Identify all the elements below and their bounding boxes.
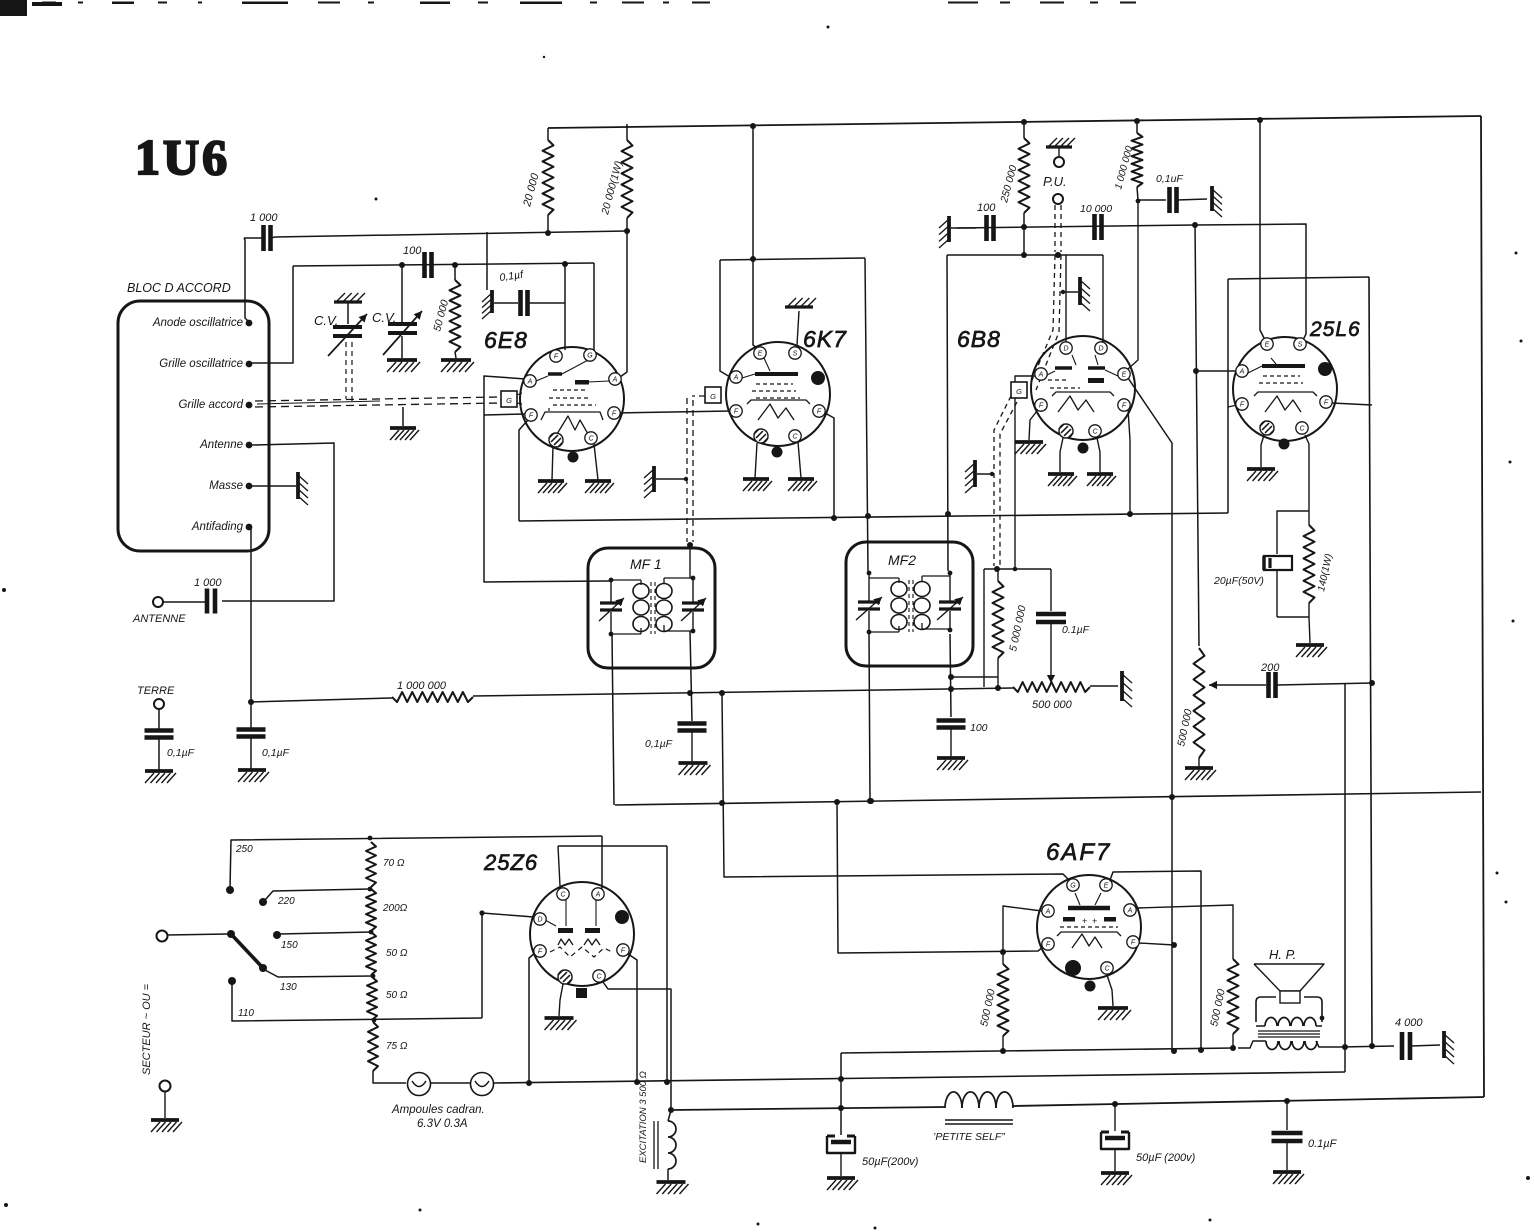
- wire - pot right to chassis: [1090, 685, 1118, 687]
- svg-text:100: 100: [977, 202, 996, 214]
- tube 6B8 (detector/AVC): [1011, 336, 1135, 454]
- svg-text:G: G: [506, 396, 512, 405]
- resistor 75 ohm: [368, 1022, 408, 1071]
- svg-text:0,1µF: 0,1µF: [262, 747, 290, 759]
- svg-text:0,1uF: 0,1uF: [1156, 173, 1183, 185]
- svg-text:A: A: [1038, 371, 1044, 378]
- resistor 20000(1W): [599, 124, 632, 231]
- resistor 1 000 000 (diode load): [1113, 121, 1142, 200]
- svg-text:Grille oscillatrice: Grille oscillatrice: [159, 358, 243, 370]
- svg-text:5 000 000: 5 000 000: [1007, 604, 1028, 652]
- wire - heater rail y520: [519, 511, 1228, 521]
- svg-text:E: E: [758, 350, 763, 357]
- wire - 6K7 box top: [720, 256, 865, 262]
- svg-text:6.3V 0.3A: 6.3V 0.3A: [417, 1118, 468, 1130]
- capacitor 4 000: [1395, 1017, 1440, 1060]
- svg-text:130: 130: [280, 982, 297, 993]
- wire - antifading down: [248, 529, 254, 705]
- svg-text:100: 100: [403, 245, 422, 257]
- wire - 6B8 D-left lead: [1065, 255, 1067, 342]
- pilot lamp 2: [471, 1073, 494, 1096]
- svg-text:G: G: [587, 352, 593, 359]
- capacitor 0,1uF (MF1): [645, 724, 707, 763]
- switch contact 130: [265, 970, 375, 993]
- svg-text:F: F: [529, 412, 534, 419]
- svg-text:A: A: [733, 374, 739, 381]
- wire - x529 to 25Z6 F-left: [529, 953, 535, 1083]
- svg-text:Grille accord: Grille accord: [178, 399, 243, 411]
- label 6B8: [957, 326, 1001, 352]
- svg-text:F: F: [612, 410, 617, 417]
- svg-text:Masse: Masse: [209, 480, 243, 492]
- terminal - P.U. upper: [1046, 138, 1075, 167]
- capacitor 100 (MF2): [937, 721, 988, 758]
- ground - excitation: [657, 1182, 689, 1194]
- chassis bar - 4000 cap: [1444, 1031, 1454, 1064]
- ground - 50uF no2: [1101, 1173, 1132, 1185]
- resistor 500 000 (6AF7 left): [978, 964, 1008, 1054]
- svg-text:S: S: [793, 350, 798, 357]
- capacitor 20uF(50V) electrolytic: [1213, 556, 1292, 617]
- capacitor 0,1uF (terre): [145, 709, 195, 770]
- wire - grille oscillatrice riser: [250, 266, 293, 363]
- wire - 6E8 cathode legs: [552, 444, 598, 480]
- capacitor 1000 top-left: [244, 212, 278, 251]
- svg-text:D: D: [1098, 345, 1103, 352]
- wire - x1228 down: [1228, 279, 1237, 513]
- capacitor 100 (osc grid): [403, 245, 432, 278]
- resistor 1 000 000 (horizontal): [392, 680, 473, 702]
- ground - 25L6: [1247, 469, 1278, 481]
- wire - 6AF7 A-left to 500k: [1003, 906, 1042, 964]
- resistor 200 ohm: [366, 889, 408, 931]
- svg-text:6AF7: 6AF7: [1046, 839, 1111, 866]
- resistor 70 ohm: [366, 842, 405, 887]
- svg-text:P.U.: P.U.: [1043, 174, 1067, 189]
- wire - 6B8 F-right to heater rail: [1128, 409, 1130, 514]
- switch lever: [227, 930, 267, 972]
- wire - MF1 top feed: [687, 542, 693, 578]
- svg-text:200Ω: 200Ω: [382, 903, 408, 914]
- wire - x841 filter riser: [840, 1053, 842, 1135]
- svg-text:F: F: [1046, 941, 1051, 948]
- wire - 6B8 E riser: [1128, 200, 1138, 369]
- wire - 25Z6 inner rail: [558, 846, 667, 1082]
- svg-text:MF 1: MF 1: [630, 556, 662, 572]
- wire - right border vertical: [1481, 116, 1484, 1097]
- label 6K7: [803, 326, 847, 352]
- tube 25L6 (output): [1233, 337, 1337, 450]
- wire - 25L6 hatch pin leg: [1261, 435, 1264, 467]
- wire - 6K7 box left to A: [720, 260, 730, 377]
- svg-text:25Z6: 25Z6: [483, 850, 538, 875]
- svg-text:A: A: [595, 891, 601, 898]
- wire - 6E8 box corner to heater rail: [519, 420, 528, 521]
- wire - MF2 left leg down: [867, 634, 873, 804]
- ground - tuning line rotor T: [390, 407, 419, 440]
- switch contact 220: [259, 887, 372, 907]
- svg-text:100: 100: [970, 722, 988, 734]
- svg-text:220: 220: [277, 896, 295, 907]
- ground - under 50000: [441, 360, 474, 372]
- svg-text:F: F: [1131, 939, 1136, 946]
- wire - 25L6 F-right lead: [1332, 403, 1372, 405]
- terminal - TERRE: [137, 685, 175, 709]
- svg-text:1 000 000: 1 000 000: [1113, 145, 1135, 191]
- terminal - secteur: [157, 931, 168, 942]
- svg-text:0,1µF: 0,1µF: [645, 738, 673, 750]
- svg-text:E: E: [1265, 341, 1270, 348]
- svg-text:F: F: [1240, 401, 1245, 408]
- wire - 5M bottom stub: [951, 677, 998, 688]
- wire - top B+ rail: [548, 116, 1481, 129]
- resistor 20000 (R osc anode): [521, 128, 553, 233]
- svg-text:500 000: 500 000: [978, 988, 998, 1028]
- capacitor 100 (6B8 grid): [977, 202, 996, 241]
- wire - lamps link: [430, 1082, 471, 1084]
- wire - 25L6 screen rail right: [1228, 277, 1369, 279]
- svg-text:250 000: 250 000: [998, 164, 1020, 205]
- chassis bar - detector shield tap: [965, 460, 994, 493]
- svg-text:Antifading: Antifading: [191, 521, 244, 533]
- svg-text:E: E: [1104, 882, 1109, 889]
- chassis bar - pot right: [1122, 671, 1132, 707]
- svg-text:A: A: [1045, 908, 1051, 915]
- svg-text:75 Ω: 75 Ω: [386, 1041, 408, 1052]
- capacitor 50uF(200v) no2: [1101, 1104, 1196, 1171]
- wire - oscillator grid rail y265: [293, 261, 594, 268]
- ground - 500k AVC: [1185, 768, 1216, 780]
- wire - MF1 right leg down: [690, 631, 692, 721]
- pilot lamp 1: [408, 1073, 431, 1096]
- dashed wire - 6B8 grid to detector: [994, 396, 1017, 566]
- capacitor 0.1uF (detector): [1036, 569, 1090, 683]
- wire - chain bottom to lamps: [373, 1071, 406, 1083]
- resistor 500 000 (AVC): [1175, 648, 1204, 767]
- svg-text:F: F: [1039, 402, 1044, 409]
- svg-text:25L6: 25L6: [1309, 318, 1361, 341]
- svg-text:+: +: [1092, 916, 1097, 926]
- svg-text:6K7: 6K7: [803, 326, 847, 352]
- ground - MF1 cap: [679, 763, 711, 775]
- svg-text:S: S: [1298, 341, 1303, 348]
- wire - screen rail to 25L6 S: [1195, 224, 1306, 340]
- svg-text:1 000: 1 000: [250, 212, 278, 224]
- terminal - P.U. lower: [1053, 194, 1063, 204]
- ground - antifading: [238, 770, 269, 782]
- svg-text:A: A: [1127, 907, 1133, 914]
- dashed wire - 6K7 grid to MF1: [687, 396, 705, 542]
- svg-text:50µF(200v): 50µF(200v): [862, 1156, 919, 1168]
- switch contact 110: [228, 977, 482, 1022]
- svg-text:F: F: [734, 408, 739, 415]
- svg-text:TERRE: TERRE: [137, 685, 175, 697]
- svg-text:MF2: MF2: [888, 552, 916, 568]
- svg-text:F: F: [1122, 402, 1127, 409]
- svg-text:10 000: 10 000: [1080, 203, 1112, 215]
- capacitor 10 000: [1080, 203, 1112, 240]
- wire - AVC rail left: [251, 698, 392, 702]
- wire - 25Z6 plate rail: [599, 836, 602, 890]
- svg-text:70 Ω: 70 Ω: [383, 858, 405, 869]
- capacitor 0.1uF (bottom right): [1272, 1101, 1338, 1170]
- wire - 6E8 F to 6K7 F heater link: [614, 411, 731, 413]
- svg-text:A: A: [612, 376, 618, 383]
- svg-text:0,1µF: 0,1µF: [167, 747, 195, 759]
- terminal - secteur bottom: [160, 1081, 171, 1119]
- dashed link CV1 rotor: [346, 342, 352, 405]
- ground - 50uF no1: [827, 1178, 858, 1190]
- label 25L6: [1309, 318, 1361, 341]
- wire - detector top rail: [984, 566, 1051, 572]
- ground - terre: [145, 771, 176, 783]
- wire - masse to chassis: [252, 485, 296, 487]
- resistor 50 ohm (1): [366, 932, 408, 975]
- ground - above 6K7 (screen): [785, 298, 816, 307]
- wire - anode oscillatrice riser: [244, 238, 249, 322]
- ground - 25L6 bias: [1296, 645, 1327, 657]
- svg-text:1 000 000: 1 000 000: [397, 680, 447, 692]
- svg-text:A: A: [1239, 368, 1245, 375]
- svg-text:Antenne: Antenne: [199, 439, 243, 451]
- label 6AF7: [1046, 839, 1111, 866]
- wire - 25L6 A lead: [1193, 368, 1236, 374]
- label SECTEUR: [141, 983, 153, 1075]
- svg-text:BLOC D ACCORD: BLOC D ACCORD: [127, 281, 231, 295]
- terminal - ANTENNE: [132, 597, 186, 625]
- loudspeaker H.P. with output transformer: [1238, 947, 1340, 1050]
- bloc d accord box: [118, 281, 269, 551]
- svg-text:6E8: 6E8: [484, 327, 528, 353]
- variable capacitor C.V. 2: [372, 266, 422, 358]
- label 25Z6: [483, 850, 538, 875]
- svg-text:E: E: [1122, 371, 1127, 378]
- wire - bottom border rail: [671, 1097, 1484, 1111]
- wire - 6AF7 G rail: [722, 694, 1069, 880]
- svg-text:0.1µF: 0.1µF: [1308, 1138, 1338, 1150]
- ground - MF2 cap: [937, 758, 968, 770]
- svg-text:EXCITATION 3 500 Ω: EXCITATION 3 500 Ω: [638, 1071, 649, 1163]
- dashed wire - P.U. pickup pair: [1030, 205, 1061, 390]
- svg-text:50 Ω: 50 Ω: [386, 948, 408, 959]
- bloc d accord terminals and labels: [152, 317, 253, 533]
- wire - 6AF7 A-right to 500k: [1136, 905, 1233, 959]
- svg-text:110: 110: [238, 1008, 254, 1019]
- wire - 6E8 A-left bracket to MF1: [484, 376, 609, 582]
- inductor petite self: [933, 1092, 1013, 1143]
- wire - 6B8 F-left to ground: [1029, 411, 1037, 440]
- wire - 6B8 E to B+ drop: [1128, 378, 1177, 1054]
- wiper arrow - onto 500k: [1209, 681, 1240, 689]
- capacitor 1000 (antenne): [163, 577, 222, 614]
- wire - speaker secondary to 4000 cap: [1340, 1044, 1394, 1050]
- svg-text:500 000: 500 000: [1175, 708, 1195, 748]
- wire - x487 from 1000 cap to chassis bar: [486, 232, 488, 290]
- ground - 6AF7: [1098, 1008, 1131, 1020]
- resistor 250 000: [998, 122, 1029, 255]
- ground - under CV2: [387, 360, 420, 372]
- wire - 6K7 cathode legs: [755, 442, 801, 478]
- wire - 6AF7 E rail: [1110, 871, 1201, 1050]
- wire - secteur to pivot: [167, 934, 228, 935]
- svg-text:500 000: 500 000: [1208, 988, 1228, 1028]
- wire - antenne to 1000 cap: [222, 443, 334, 601]
- ground - 6K7 left: [743, 479, 772, 491]
- label 6E8: [484, 327, 528, 353]
- tube 6K7 (IF amplifier): [705, 342, 830, 458]
- wire - 6B8 box top: [947, 252, 1103, 258]
- svg-text:20 000(1W): 20 000(1W): [599, 160, 625, 217]
- field coil EXCITATION 3500: [638, 1071, 676, 1180]
- chassis bar - shield tap 6E8/6K7: [644, 466, 688, 498]
- potentiometer 500 000 (volume): [1013, 682, 1090, 711]
- wire - heater chain rail: [494, 1072, 1345, 1086]
- svg-text:0.1µF: 0.1µF: [1062, 624, 1090, 636]
- capacitor 200: [1240, 662, 1372, 698]
- chassis bar - masse: [298, 472, 308, 505]
- schematic title 1U6: [135, 129, 230, 185]
- wire - MF2 right leg down: [948, 634, 954, 717]
- svg-text:20 000: 20 000: [521, 171, 542, 208]
- svg-text:250: 250: [235, 844, 253, 855]
- wire - MF1 left leg down: [612, 634, 614, 805]
- svg-text:F: F: [554, 353, 559, 360]
- ground - secteur: [151, 1120, 182, 1132]
- svg-text:1U6: 1U6: [135, 129, 230, 185]
- capacitor 0,1uf (osc): [482, 269, 565, 319]
- ground - 6B8 mid: [1048, 474, 1077, 486]
- svg-text:50 Ω: 50 Ω: [386, 990, 408, 1001]
- label P.U.: [1043, 174, 1067, 189]
- ground - 6B8 right: [1087, 474, 1116, 486]
- svg-text:F: F: [817, 408, 822, 415]
- svg-text:50µF (200v): 50µF (200v): [1136, 1152, 1196, 1164]
- wire - 6K7 E riser: [753, 126, 757, 348]
- wire - 6K7 S to ground: [797, 311, 799, 345]
- ground - 6B8 F-left: [1015, 442, 1046, 454]
- ground - 25Z6: [545, 1018, 577, 1030]
- tube 6E8 (converter): [501, 347, 624, 463]
- wire - x1372 B+ drop: [1369, 277, 1375, 1049]
- svg-text:G: G: [1070, 882, 1076, 889]
- wire - x1196 screen feed: [1195, 225, 1199, 646]
- switch contact 250: [226, 836, 602, 894]
- svg-text:4 000: 4 000: [1395, 1017, 1423, 1029]
- chassis bar - PU shield tap: [1061, 277, 1090, 311]
- svg-text:F: F: [1324, 399, 1329, 406]
- ground - 6E8 left: [538, 481, 567, 493]
- resistor 5 000 000: [993, 569, 1029, 677]
- svg-text:1 000: 1 000: [194, 577, 222, 589]
- svg-text:’PETITE SELF”: ’PETITE SELF”: [933, 1131, 1005, 1143]
- resistor 140(1W): [1304, 511, 1335, 617]
- svg-text:D: D: [1063, 345, 1068, 352]
- capacitor 0,1uF (antifading): [237, 702, 290, 769]
- wire - 6B8 D-right lead: [1102, 255, 1104, 342]
- svg-text:150: 150: [281, 940, 298, 951]
- svg-text:G: G: [1016, 387, 1022, 396]
- svg-text:Anode oscillatrice: Anode oscillatrice: [152, 317, 243, 329]
- ground - 0.1uF bottom: [1273, 1172, 1304, 1184]
- tube 6AF7 (magic eye): [1037, 875, 1141, 992]
- resistor 50 ohm (2): [367, 977, 408, 1020]
- svg-text:SECTEUR ~ OU =: SECTEUR ~ OU =: [141, 983, 153, 1075]
- svg-text:500 000: 500 000: [1032, 699, 1073, 711]
- wire - output rail y1050: [841, 1047, 1233, 1053]
- wire - bias loop bottom: [1277, 617, 1310, 643]
- svg-text:+: +: [1082, 916, 1087, 926]
- IF transformer MF1: [588, 548, 715, 668]
- chassis bar - right of 0,1uF: [1212, 186, 1222, 217]
- resistor 500 000 (6AF7 right): [1208, 959, 1238, 1051]
- svg-text:G: G: [710, 392, 716, 401]
- wire - long rail y800: [615, 792, 1481, 806]
- chassis bar - left of 100 cap: [939, 216, 976, 248]
- wire - 6AF7 C leg: [1107, 975, 1113, 1006]
- svg-text:20µF(50V): 20µF(50V): [1213, 575, 1264, 587]
- svg-text:140(1W): 140(1W): [1316, 553, 1335, 593]
- svg-text:H. P.: H. P.: [1269, 947, 1296, 962]
- wire - 6B8 A to detector: [1015, 376, 1035, 569]
- svg-text:D: D: [537, 916, 542, 923]
- ground - 6K7 right: [788, 479, 817, 491]
- svg-text:0,1µf: 0,1µf: [499, 269, 525, 284]
- wire - 25Z6 D lead from switch: [479, 910, 534, 1018]
- wire - AVC rail mid: [473, 685, 1013, 696]
- tube 25Z6 (rectifier): [530, 882, 634, 998]
- variable capacitor C.V. 1: [314, 293, 367, 356]
- capacitor 50uF(200v) no1: [827, 1136, 919, 1176]
- svg-text:6B8: 6B8: [957, 326, 1001, 352]
- wire - x565 into 6E8 triode anode: [564, 264, 566, 350]
- svg-text:F: F: [538, 948, 543, 955]
- svg-text:Ampoules cadran.: Ampoules cadran.: [391, 1104, 485, 1116]
- wire - 6K7 F-right to heater rail: [825, 413, 834, 517]
- wire - bias loop left: [1277, 511, 1309, 554]
- wire - x637 from 25Z6 F-right: [628, 954, 637, 1082]
- wire - 25Z6 hatch pin leg: [559, 984, 563, 1016]
- svg-text:50 000: 50 000: [431, 298, 451, 332]
- wire - 6B8 cathode legs: [1060, 438, 1100, 472]
- wire - 25L6 E riser: [1260, 120, 1264, 338]
- wire - rail y233 under top resistors: [275, 228, 630, 237]
- wire - 6K7 box right down: [865, 258, 871, 571]
- wire - 25L6 cathode leg: [1305, 435, 1309, 511]
- wire - 6B8 box left down to MF2: [945, 255, 951, 571]
- dashed wire - grille accord pair: [255, 397, 500, 407]
- label ampoules cadran: [391, 1104, 485, 1130]
- capacitor 0,1uF (top): [1136, 173, 1207, 213]
- svg-text:A: A: [527, 378, 533, 385]
- wire - 25Z6 cathode out: [603, 982, 674, 1113]
- wire - x1345 drop: [1344, 684, 1346, 1072]
- wire - 6E8 A-right from 20000(1W): [620, 231, 627, 377]
- switch contact 150: [273, 930, 373, 951]
- wire - x984 down: [983, 569, 985, 687]
- ground - 6E8 right: [585, 481, 614, 493]
- wire - PU caps rail y227: [957, 222, 1198, 230]
- wire - 6E8 G-top riser: [592, 263, 594, 350]
- resistor 50000 (osc grid leak): [431, 265, 460, 358]
- IF transformer MF2: [846, 542, 973, 666]
- svg-text:ANTENNE: ANTENNE: [132, 613, 186, 625]
- wire - 6AF7 F rail: [837, 802, 1043, 955]
- svg-text:F: F: [621, 947, 626, 954]
- wire - 6AF7 F-right lead: [1139, 942, 1177, 948]
